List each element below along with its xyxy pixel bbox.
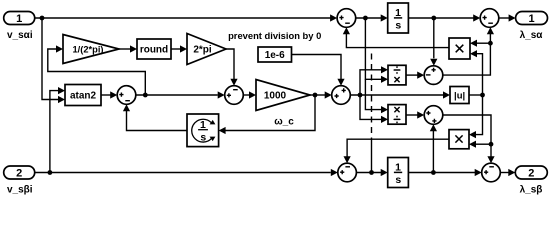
label prevent division by 0 xyxy=(228,30,321,41)
wire S3 to abs |u| xyxy=(350,91,450,98)
wire integrator beta to sum S6 xyxy=(408,169,481,176)
sum S7 xyxy=(338,163,357,182)
svg-text:atan2: atan2 xyxy=(70,91,97,102)
label ω_c xyxy=(274,117,294,128)
wire S1 to sum S2 xyxy=(136,91,225,98)
wire |u| out to J8 xyxy=(469,94,483,96)
svg-text:v_sαi: v_sαi xyxy=(7,30,33,41)
node J8 after |u| xyxy=(480,93,485,98)
wire S7 to integrator 1/s beta xyxy=(356,169,387,176)
wire 2*pi down to S2 minus xyxy=(226,49,238,86)
wire J1 down to atan2 second input xyxy=(42,18,65,103)
wire S2 to gain 1000 xyxy=(243,91,256,98)
node J7 after integrator alpha xyxy=(431,16,436,21)
wire input1 to sum T1 xyxy=(35,14,337,21)
wire J6 down to divide D1 x input and D2 x input xyxy=(365,18,388,113)
svg-text:1: 1 xyxy=(200,119,206,131)
gain 1/(2*pi) xyxy=(63,35,119,64)
wire J7 down to S4 plus xyxy=(430,18,437,66)
svg-text:λ_sα: λ_sα xyxy=(520,30,544,41)
block loop integrator 1/s xyxy=(187,114,219,147)
wire S6 to output 2 xyxy=(500,169,515,176)
dashed line lambda beta up xyxy=(371,54,373,173)
svg-text:1: 1 xyxy=(528,13,534,25)
svg-text:1: 1 xyxy=(395,161,401,173)
svg-text:round: round xyxy=(140,45,168,56)
integrator 1/s alpha xyxy=(388,3,409,33)
wire loop integrator out to S1 minus xyxy=(123,104,187,130)
wire atan2 to sum S1 xyxy=(101,91,117,98)
sum T1 xyxy=(337,9,356,28)
label v_sαi xyxy=(7,30,33,41)
label v_sβi xyxy=(7,184,33,195)
wire 1/(2*pi) to round xyxy=(119,45,137,52)
label λ_sα xyxy=(520,30,544,41)
wire integrator alpha to sum T2 xyxy=(408,14,480,21)
constant 1e-6 xyxy=(258,47,292,62)
sum S5 xyxy=(424,106,443,125)
svg-text:|u|: |u| xyxy=(454,90,465,101)
node J1 on input1 line xyxy=(40,16,45,21)
wire X1 out to T1 minus xyxy=(343,27,449,47)
sum T2 xyxy=(480,9,499,28)
block round xyxy=(137,39,171,59)
svg-text:2: 2 xyxy=(16,168,22,180)
sum S1 xyxy=(117,86,136,105)
svg-text:1/(2*pi): 1/(2*pi) xyxy=(73,44,104,54)
wire J5 down to divide D2 bottom input xyxy=(360,95,388,123)
node J3 after S1 xyxy=(143,93,148,98)
svg-text:1: 1 xyxy=(395,7,401,19)
svg-text:λ_sβ: λ_sβ xyxy=(520,184,543,195)
wire J10 to product X2 lower input xyxy=(469,141,491,148)
wire 1000 to sum S3 xyxy=(310,91,332,98)
wire J8 down to product X2 upper input xyxy=(469,95,483,138)
sum S2 xyxy=(225,86,244,105)
divide D1 xyxy=(388,65,406,85)
wire T2 to output 1 xyxy=(499,14,516,21)
block atan2 xyxy=(65,85,101,106)
wire X2 out to S7 minus xyxy=(344,139,450,163)
input port 2 (v_sβi) xyxy=(4,166,35,180)
gain 2*pi xyxy=(187,34,226,65)
product X2 xyxy=(449,130,469,149)
svg-text:s: s xyxy=(395,20,401,32)
sum S6 xyxy=(482,163,501,182)
wire S4 up to T2 minus xyxy=(443,27,494,75)
svg-text:s: s xyxy=(200,132,206,144)
node J5 after S3 xyxy=(358,93,363,98)
divide D2 xyxy=(388,105,406,125)
wire D2 to sum S5 xyxy=(406,111,424,118)
wire wrap-around J3 to gain 1/(2*pi) xyxy=(48,45,146,95)
wire S5 down to S6 minus xyxy=(443,115,495,163)
svg-text:2*pi: 2*pi xyxy=(193,44,212,55)
product X1 xyxy=(449,38,470,59)
node J11 after S7 xyxy=(369,170,374,175)
wire 1e-6 to S3 plus xyxy=(292,55,345,86)
node J2 on input2 line xyxy=(48,170,53,175)
sum S4 xyxy=(424,66,443,85)
svg-text:prevent division by 0: prevent division by 0 xyxy=(228,30,321,41)
svg-text:1e-6: 1e-6 xyxy=(265,50,285,61)
wire J9 to product X1 upper input xyxy=(470,40,490,47)
node J6 after T1 xyxy=(363,16,368,21)
gain 1000 xyxy=(256,80,310,111)
svg-text:2: 2 xyxy=(528,168,534,180)
svg-text:v_sβi: v_sβi xyxy=(7,184,33,195)
wire round to gain 2*pi xyxy=(171,45,187,52)
node J9 on S4-T2 wire xyxy=(488,41,493,46)
node J10 on S5-S6 wire xyxy=(489,142,494,147)
node J4 after 1000 xyxy=(313,93,318,98)
label λ_sβ xyxy=(520,184,543,195)
abs block |u| xyxy=(450,87,469,104)
wire input2 to sum S7 xyxy=(35,169,338,176)
svg-text:ω_c: ω_c xyxy=(274,117,294,128)
sum S3 xyxy=(332,86,351,105)
output port 1 (λ_sα) xyxy=(516,12,548,26)
wire T1 to integrator 1/s alpha xyxy=(356,14,388,21)
output port 2 (λ_sβ) xyxy=(515,166,547,180)
wire J8 up to product X1 lower input xyxy=(470,50,483,95)
wire J5 up to divide D1 top input xyxy=(360,66,388,95)
wire J12 up to S5 plus xyxy=(430,124,437,172)
svg-text:1000: 1000 xyxy=(264,90,287,101)
input port 1 (v_sαi) xyxy=(4,12,35,26)
wire omega_c J4 down to loop integrator xyxy=(219,95,315,134)
wire D1 to sum S4 xyxy=(406,72,424,79)
svg-text:1: 1 xyxy=(16,13,22,25)
wire J2 up to atan2 first input xyxy=(50,87,65,173)
svg-text:s: s xyxy=(395,174,401,186)
node J12 after integrator beta xyxy=(431,170,436,175)
integrator 1/s beta xyxy=(388,158,409,188)
